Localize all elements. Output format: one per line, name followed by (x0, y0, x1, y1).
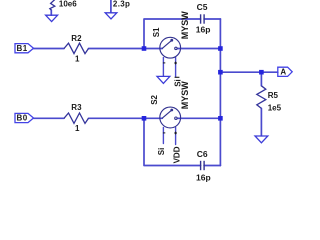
junction node J2 (218, 46, 223, 51)
wire (177, 117, 220, 119)
svg-text:S1: S1 (152, 27, 161, 37)
wire S1 left pin (162, 58, 164, 77)
capacitor C6 (201, 161, 205, 170)
S2 plus mark (174, 132, 177, 135)
resistor R2 (64, 43, 89, 53)
svg-text:MYSW: MYSW (180, 11, 190, 40)
svg-text:B0: B0 (17, 114, 28, 123)
svg-text:10e6: 10e6 (59, 0, 77, 8)
junction node J5 (142, 116, 147, 121)
S1 plus mark (174, 62, 177, 65)
junction node J4 (259, 70, 264, 75)
wire output row A (220, 71, 277, 73)
port B0 (15, 113, 34, 122)
wire C5 to bus (204, 18, 220, 20)
svg-text:1: 1 (75, 54, 80, 63)
svg-text:2.3p: 2.3p (113, 0, 130, 8)
switch S2 body (160, 107, 181, 128)
ground under S1 left pin (157, 76, 170, 83)
svg-text:R3: R3 (71, 103, 82, 112)
wire B1 row (34, 48, 65, 50)
switch S1 body (160, 37, 181, 58)
wire C6 left to branch (144, 118, 201, 165)
wire B0 row (34, 117, 65, 119)
svg-text:R5: R5 (268, 91, 279, 100)
wire stub top resistor to ground (50, 10, 52, 15)
svg-text:1: 1 (75, 124, 80, 133)
svg-text:R2: R2 (71, 34, 82, 43)
svg-text:C6: C6 (197, 149, 208, 159)
ground under R5 (255, 136, 268, 143)
S2 minus mark (163, 132, 165, 134)
svg-text:S2: S2 (150, 94, 159, 104)
resistor R3 (64, 113, 89, 123)
port A (278, 67, 292, 76)
wire S2 left pin (162, 127, 164, 143)
wire R5 bottom (260, 108, 262, 135)
resistor R5 (257, 86, 266, 109)
wire stub top cap to ground (110, 0, 112, 13)
ground under 10e6 (46, 15, 58, 21)
svg-text:1e5: 1e5 (268, 103, 282, 112)
wire S2 right pin (175, 127, 177, 144)
wire (89, 48, 163, 50)
junction node J3 (218, 70, 223, 75)
svg-text:Si: Si (157, 148, 166, 156)
wire S1 right pin (175, 58, 177, 77)
svg-text:16p: 16p (196, 173, 211, 183)
overline of Si net (175, 76, 180, 78)
svg-text:A: A (280, 67, 286, 76)
wire bottom from bus to C6 (204, 165, 220, 167)
svg-text:VDD: VDD (173, 146, 182, 163)
capacitor C5 (201, 14, 205, 23)
wire (89, 117, 163, 119)
port B1 (15, 44, 34, 53)
wire branch up to C5 (144, 19, 201, 49)
svg-text:16p: 16p (196, 24, 211, 34)
S1 minus mark (163, 62, 165, 64)
wire (177, 48, 220, 50)
svg-text:B1: B1 (17, 44, 28, 53)
wire R5 top (260, 72, 262, 86)
junction node J6 (218, 116, 223, 121)
resistor 10e6 (cut off at top) (50, 0, 56, 10)
svg-text:C5: C5 (197, 2, 208, 12)
svg-text:MYSW: MYSW (180, 81, 190, 110)
junction node J1 (142, 46, 147, 51)
wire bus vertical (219, 19, 221, 166)
ground under 2.3p (105, 13, 117, 19)
